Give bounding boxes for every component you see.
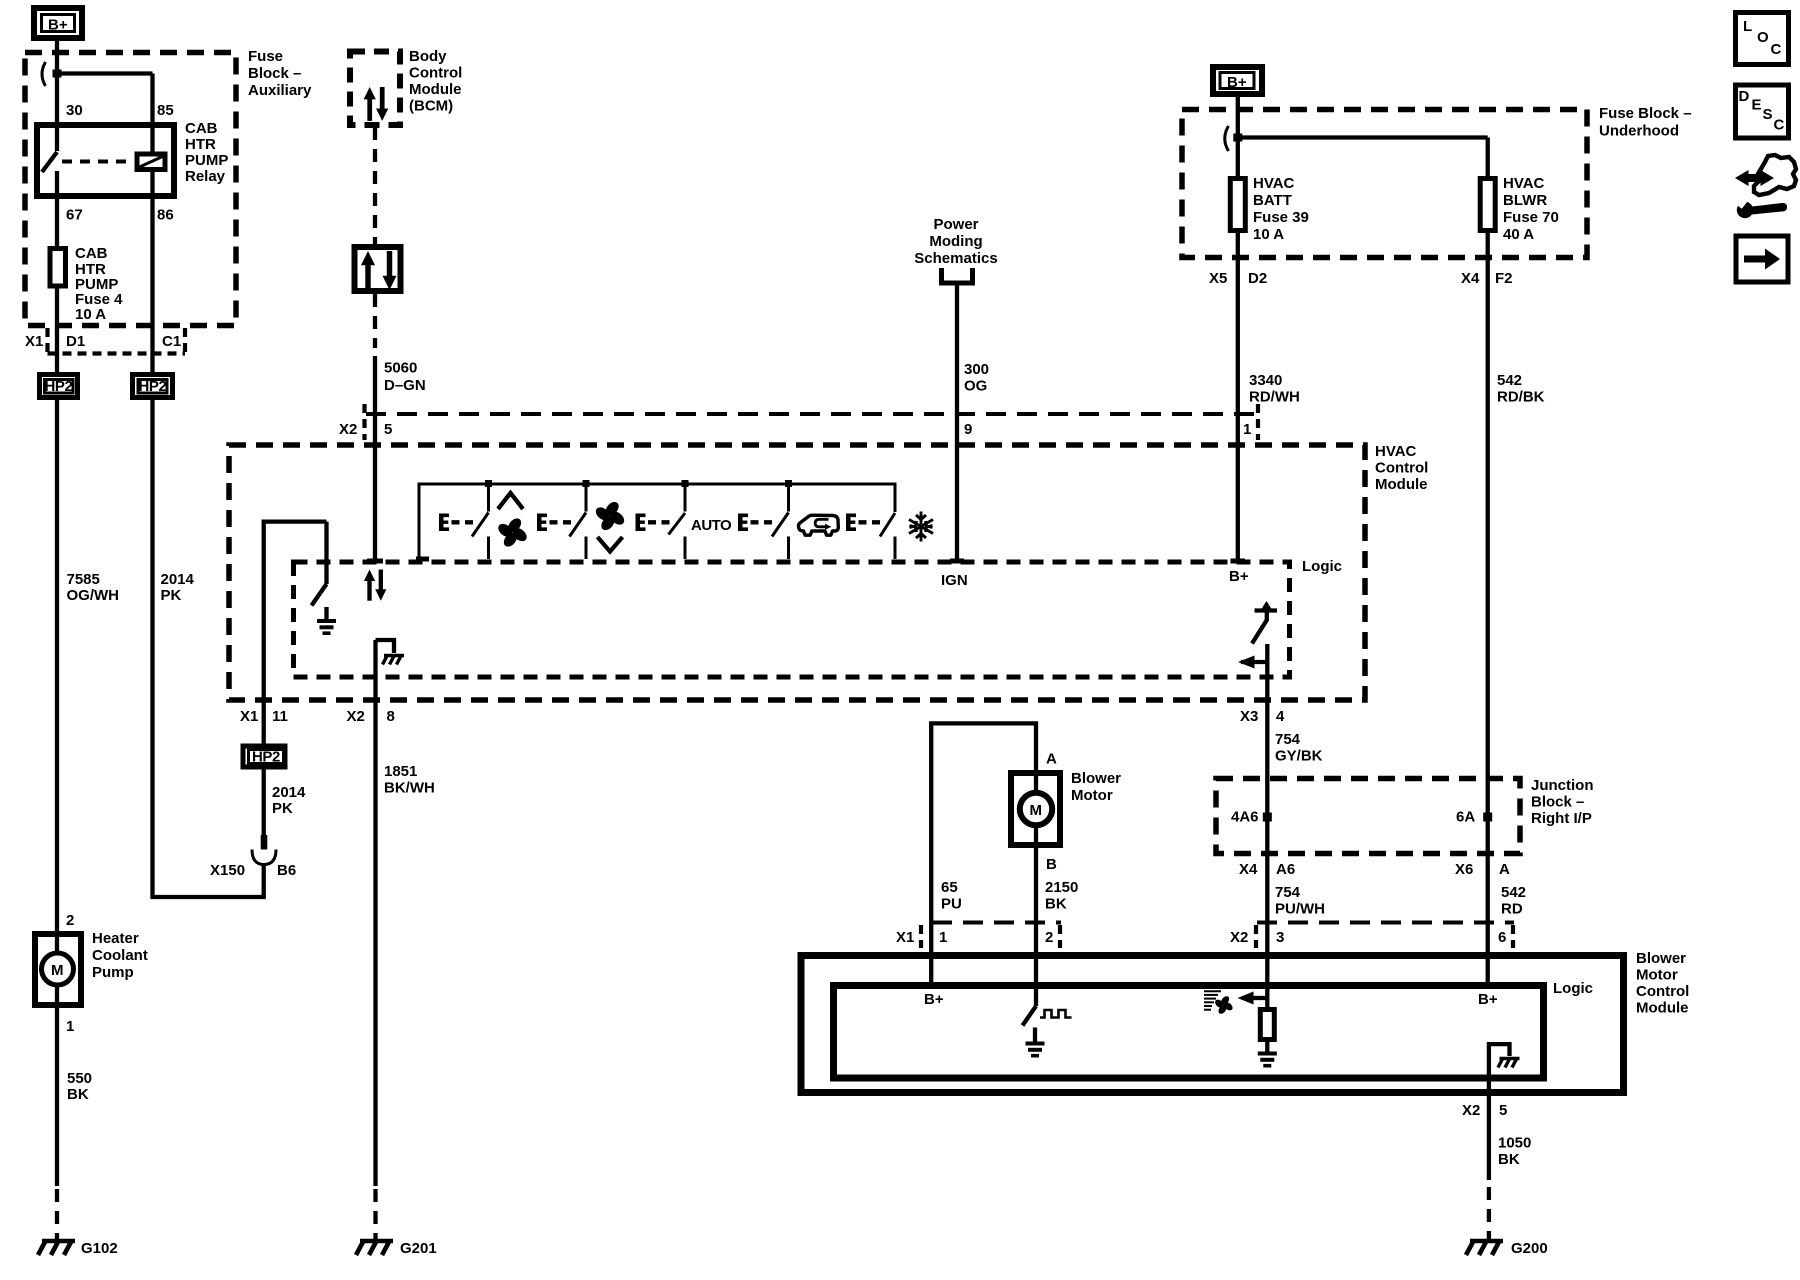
svg-text:BATT: BATT [1253,192,1292,209]
svg-text:754: 754 [1275,731,1301,748]
svg-text:BK/WH: BK/WH [384,780,435,797]
svg-text:Fuse 70: Fuse 70 [1503,209,1559,226]
svg-text:BLWR: BLWR [1503,192,1547,209]
svg-text:30: 30 [66,102,83,119]
svg-text:10 A: 10 A [75,306,106,323]
svg-text:HVAC: HVAC [1503,175,1545,192]
svg-text:L: L [1743,18,1752,35]
svg-text:1: 1 [66,1018,74,1035]
svg-text:Fuse: Fuse [248,48,283,65]
svg-text:X2: X2 [347,708,365,725]
svg-text:2: 2 [1045,929,1053,946]
svg-text:HTR: HTR [185,136,216,153]
svg-text:C: C [1771,41,1782,58]
svg-text:Right I/P: Right I/P [1531,810,1592,827]
svg-text:PU: PU [941,896,962,913]
svg-text:1: 1 [939,929,947,946]
svg-text:4A6: 4A6 [1231,809,1259,826]
svg-text:PU/WH: PU/WH [1275,901,1325,918]
svg-text:RD: RD [1501,901,1523,918]
svg-text:IGN: IGN [941,572,968,589]
svg-text:67: 67 [66,207,83,224]
svg-text:B+: B+ [924,991,944,1008]
svg-text:Module: Module [1636,1000,1689,1017]
svg-text:Pump: Pump [92,964,134,981]
svg-text:Fuse 39: Fuse 39 [1253,209,1309,226]
svg-text:BK: BK [67,1086,89,1103]
svg-text:M: M [1030,802,1043,819]
svg-text:HP2: HP2 [252,749,280,766]
svg-text:Control: Control [1636,983,1689,1000]
svg-text:X4: X4 [1239,861,1258,878]
svg-text:Moding: Moding [929,233,982,250]
svg-text:542: 542 [1497,372,1522,389]
svg-text:OG/WH: OG/WH [67,587,120,604]
svg-text:300: 300 [964,361,989,378]
svg-text:9: 9 [964,421,972,438]
svg-text:Motor: Motor [1071,787,1113,804]
svg-text:Fuse Block –: Fuse Block – [1599,105,1692,122]
svg-text:X2: X2 [339,421,357,438]
svg-text:(BCM): (BCM) [409,98,453,115]
svg-text:1: 1 [1243,421,1251,438]
svg-text:2014: 2014 [272,784,306,801]
svg-text:PK: PK [272,800,293,817]
svg-text:X1: X1 [896,929,914,946]
svg-text:G102: G102 [81,1240,118,1257]
svg-text:754: 754 [1275,884,1301,901]
svg-text:PK: PK [161,587,182,604]
svg-text:Block –: Block – [1531,794,1584,811]
svg-text:E: E [1752,97,1762,114]
svg-text:AUTO: AUTO [691,517,732,534]
svg-text:Control: Control [409,65,462,82]
svg-text:A6: A6 [1276,861,1295,878]
svg-text:1851: 1851 [384,763,417,780]
svg-text:B: B [1046,856,1057,873]
svg-text:542: 542 [1501,884,1526,901]
svg-text:X2: X2 [1230,929,1248,946]
svg-text:Underhood: Underhood [1599,123,1679,140]
svg-text:OG: OG [964,378,987,395]
svg-text:B+: B+ [1229,568,1249,585]
svg-text:RD/WH: RD/WH [1249,389,1300,406]
svg-text:Auxiliary: Auxiliary [248,82,312,99]
svg-text:BK: BK [1498,1151,1520,1168]
svg-text:GY/BK: GY/BK [1275,748,1323,765]
svg-text:B6: B6 [277,862,296,879]
svg-text:G200: G200 [1511,1240,1548,1257]
svg-text:Junction: Junction [1531,777,1594,794]
svg-text:2: 2 [66,912,74,929]
svg-text:Logic: Logic [1553,980,1593,997]
svg-text:85: 85 [157,102,174,119]
svg-text:6: 6 [1498,929,1506,946]
svg-text:Blower: Blower [1071,770,1121,787]
svg-text:2150: 2150 [1045,879,1078,896]
svg-text:X2: X2 [1462,1102,1480,1119]
svg-text:D2: D2 [1248,270,1267,287]
svg-text:B+: B+ [48,17,68,34]
svg-text:8: 8 [387,708,395,725]
svg-text:Body: Body [409,48,447,65]
svg-text:4: 4 [1276,708,1285,725]
svg-text:Heater: Heater [92,930,139,947]
svg-text:X5: X5 [1209,270,1227,287]
svg-text:1050: 1050 [1498,1135,1531,1152]
svg-text:3340: 3340 [1249,372,1282,389]
svg-text:X3: X3 [1240,708,1258,725]
svg-text:A: A [1046,751,1057,768]
svg-text:5060: 5060 [384,360,417,377]
svg-text:C: C [1774,117,1785,134]
svg-text:Logic: Logic [1302,558,1342,575]
svg-text:Schematics: Schematics [914,250,997,267]
svg-text:PUMP: PUMP [185,152,228,169]
svg-text:C1: C1 [162,333,181,350]
svg-text:3: 3 [1276,929,1284,946]
svg-text:11: 11 [272,708,288,725]
svg-text:X150: X150 [210,862,245,879]
svg-text:X6: X6 [1455,861,1473,878]
svg-text:HVAC: HVAC [1253,175,1295,192]
svg-text:D–GN: D–GN [384,377,426,394]
svg-text:10 A: 10 A [1253,226,1284,243]
svg-text:B+: B+ [1227,74,1247,91]
svg-text:CAB: CAB [75,245,108,262]
svg-text:D1: D1 [66,333,85,350]
svg-text:Relay: Relay [185,168,226,185]
svg-text:5: 5 [384,421,392,438]
svg-text:86: 86 [157,207,174,224]
svg-text:F2: F2 [1495,270,1513,287]
svg-text:Control: Control [1375,460,1428,477]
svg-text:S: S [1763,106,1773,123]
svg-text:RD/BK: RD/BK [1497,389,1545,406]
svg-text:Coolant: Coolant [92,947,148,964]
svg-text:BK: BK [1045,896,1067,913]
svg-text:HVAC: HVAC [1375,443,1417,460]
svg-text:2014: 2014 [161,571,195,588]
svg-text:CAB: CAB [185,120,218,137]
svg-text:Blower: Blower [1636,950,1686,967]
svg-text:D: D [1739,88,1750,105]
svg-text:B+: B+ [1478,991,1498,1008]
svg-text:G201: G201 [400,1240,437,1257]
svg-text:Motor: Motor [1636,967,1678,984]
svg-text:A: A [1499,861,1510,878]
svg-text:M: M [51,962,64,979]
svg-text:Power: Power [933,216,978,233]
svg-text:X1: X1 [25,333,43,350]
svg-text:550: 550 [67,1070,92,1087]
svg-text:6A: 6A [1456,809,1475,826]
svg-text:X1: X1 [240,708,258,725]
svg-text:7585: 7585 [67,571,100,588]
svg-text:Module: Module [1375,476,1428,493]
svg-text:HP2: HP2 [45,378,73,395]
svg-text:Module: Module [409,81,462,98]
svg-text:HP2: HP2 [139,378,167,395]
svg-text:O: O [1757,29,1769,46]
svg-text:5: 5 [1499,1102,1507,1119]
svg-text:40 A: 40 A [1503,226,1534,243]
svg-text:Block –: Block – [248,65,301,82]
svg-text:X4: X4 [1461,270,1480,287]
svg-text:65: 65 [941,879,958,896]
